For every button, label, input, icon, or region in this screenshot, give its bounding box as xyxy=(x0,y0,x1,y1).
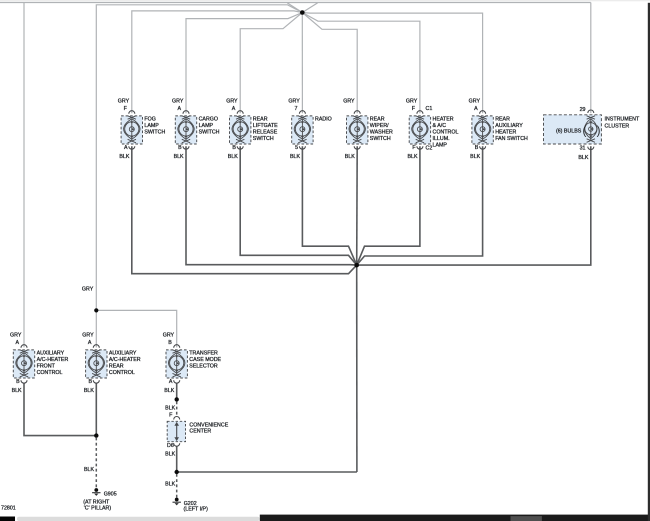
svg-text:B: B xyxy=(16,379,20,385)
svg-text:CONTROL: CONTROL xyxy=(37,370,63,376)
svg-text:CENTER: CENTER xyxy=(189,428,211,434)
svg-text:AUXILIARY: AUXILIARY xyxy=(109,350,137,356)
wire: GRY to heater & A/C control illumination xyxy=(302,13,420,114)
lamp component: rear wiper/washer switch xyxy=(347,111,368,149)
wire: BLK dashed to ground G202 xyxy=(176,474,178,498)
wire: GRY to rear wiper/washer switch xyxy=(302,13,357,114)
svg-text:CLUSTER: CLUSTER xyxy=(605,123,630,129)
svg-text:& A/C: & A/C xyxy=(433,123,447,129)
svg-text:BLK: BLK xyxy=(164,388,174,394)
scrollbar corner block xyxy=(0,517,15,521)
svg-text:WASHER: WASHER xyxy=(370,130,393,136)
wire: GRY to cargo lamp switch xyxy=(186,13,302,114)
wire: GRY branch to transfer case mode selector xyxy=(96,310,176,347)
svg-text:CARGO: CARGO xyxy=(199,116,218,122)
svg-text:A/C-HEATER: A/C-HEATER xyxy=(37,357,69,363)
svg-text:C2: C2 xyxy=(426,145,433,151)
svg-text:29: 29 xyxy=(580,107,586,113)
svg-text:(: ( xyxy=(583,126,587,138)
wire: GRY to rear auxiliary heater fan switch xyxy=(302,13,482,114)
wire: GRY to rear control / transfer case branch xyxy=(96,5,302,309)
wire: BLK dashed to convenience center pin F xyxy=(176,401,178,417)
svg-text:BLK: BLK xyxy=(290,154,300,160)
wire: BLK star run joins ground run xyxy=(177,471,357,473)
svg-text:BLK: BLK xyxy=(165,452,175,458)
wire: GRY main feed along top xyxy=(0,2,591,4)
ground G905 xyxy=(92,488,100,496)
svg-text:B: B xyxy=(475,145,479,151)
svg-text:SWITCH: SWITCH xyxy=(253,136,274,142)
svg-text:'C' PILLAR): 'C' PILLAR) xyxy=(84,506,112,512)
taskbar gray segment xyxy=(511,516,542,521)
lamp component: heater & A/C control illumination lamp xyxy=(409,111,430,149)
wire: BLK from fog lamp switch xyxy=(132,146,357,274)
wire: GRY to rear liftgate release switch xyxy=(240,13,302,114)
svg-text:SELECTOR: SELECTOR xyxy=(189,364,218,370)
wire: BLK from instrument cluster pin 31 xyxy=(357,146,591,265)
wire: BLK from front control to junction xyxy=(24,383,96,435)
wire: GRY to fog lamp switch xyxy=(132,11,302,113)
svg-text:HEATER: HEATER xyxy=(495,130,516,136)
wire: BLK from rear wiper/washer switch xyxy=(356,146,359,265)
wire: BLK from radio xyxy=(302,146,356,265)
svg-text:INSTRUMENT: INSTRUMENT xyxy=(605,116,640,122)
svg-text:SWITCH: SWITCH xyxy=(370,136,391,142)
svg-text:B: B xyxy=(88,379,92,385)
horizontal scrollbar thumb xyxy=(17,517,260,521)
svg-text:FRONT: FRONT xyxy=(37,364,56,370)
bottom dark taskbar strip xyxy=(260,515,650,521)
svg-text:GRY: GRY xyxy=(10,333,22,339)
svg-text:31: 31 xyxy=(580,146,586,152)
svg-text:BLK: BLK xyxy=(174,154,184,160)
svg-text:(6) BULBS: (6) BULBS xyxy=(556,128,582,134)
svg-text:B: B xyxy=(232,145,236,151)
svg-text:RADIO: RADIO xyxy=(315,116,332,122)
junction: BLK front/rear control xyxy=(94,433,98,437)
wire: splice diagonal up-right to top feed xyxy=(302,3,317,13)
svg-text:RELEASE: RELEASE xyxy=(253,130,278,136)
svg-text:A: A xyxy=(169,379,173,385)
svg-text:BLK: BLK xyxy=(165,405,175,411)
svg-text:LIFTGATE: LIFTGATE xyxy=(253,123,278,129)
lamp component: auxiliary A/C-heater rear control xyxy=(86,345,107,384)
wire: BLK from rear auxiliary heater fan switch xyxy=(357,146,483,265)
svg-text:GRY: GRY xyxy=(82,286,94,292)
svg-text:BLK: BLK xyxy=(12,388,22,394)
svg-text:FOG: FOG xyxy=(144,116,155,122)
wire: BLK star junction down to ground run xyxy=(356,265,358,472)
wire: BLK from rear liftgate release switch xyxy=(240,146,357,265)
svg-text:HEATER: HEATER xyxy=(433,116,454,122)
svg-text:BLK: BLK xyxy=(119,154,129,160)
junction: BLK ground junction at G202 run xyxy=(175,470,179,474)
svg-text:GRY: GRY xyxy=(226,99,238,105)
lamp component: fog lamp switch xyxy=(121,111,142,149)
wire: GRY drop to instrument cluster pin 29 xyxy=(590,3,592,114)
svg-text:FAN SWITCH: FAN SWITCH xyxy=(495,136,528,142)
svg-text:B: B xyxy=(178,145,182,151)
svg-text:): ) xyxy=(597,126,601,138)
svg-text:A: A xyxy=(16,340,20,346)
ground G202 xyxy=(173,498,181,506)
svg-text:A: A xyxy=(178,106,182,112)
wire: BLK from rear control to junction xyxy=(95,383,97,435)
svg-text:BLK: BLK xyxy=(84,467,94,473)
wire: GRY drop to auxiliary A/C-heater front control xyxy=(23,3,25,348)
svg-text:REAR: REAR xyxy=(370,116,385,122)
svg-text:5: 5 xyxy=(295,145,298,151)
lamp component: rear auxiliary heater fan switch xyxy=(472,111,493,149)
junction: transfer case BLK splice xyxy=(175,397,179,401)
svg-text:BLK: BLK xyxy=(578,155,588,161)
svg-text:REAR: REAR xyxy=(109,364,124,370)
splice: BLK ground star junction xyxy=(354,263,359,268)
svg-text:ILLUM.: ILLUM. xyxy=(433,136,450,142)
svg-text:LAMP: LAMP xyxy=(433,143,448,149)
lamp component: radio xyxy=(292,111,313,149)
svg-text:GRY: GRY xyxy=(406,99,418,105)
svg-text:GRY: GRY xyxy=(172,99,184,105)
instrument cluster with (6) bulbs xyxy=(544,110,602,150)
svg-text:SWITCH: SWITCH xyxy=(199,130,220,136)
wire: GRY continues to auxiliary A/C-heater rear control xyxy=(95,310,97,347)
svg-text:BLK: BLK xyxy=(165,482,175,488)
svg-text:CONTROL: CONTROL xyxy=(433,130,459,136)
wire: BLK from convenience center D6 down xyxy=(176,446,178,472)
svg-text:GRY: GRY xyxy=(469,99,481,105)
svg-text:SWITCH: SWITCH xyxy=(144,130,165,136)
wire: GRY to radio xyxy=(301,13,303,114)
svg-text:D6: D6 xyxy=(167,443,174,449)
svg-text:72801: 72801 xyxy=(1,505,16,511)
svg-text:7: 7 xyxy=(295,106,298,112)
svg-text:AUXILIARY: AUXILIARY xyxy=(37,350,65,356)
convenience center (fusible element) xyxy=(167,417,185,447)
svg-text:A/C-HEATER: A/C-HEATER xyxy=(109,357,141,363)
svg-text:REAR: REAR xyxy=(253,116,268,122)
svg-text:BLK: BLK xyxy=(228,154,238,160)
svg-text:BLK: BLK xyxy=(407,154,417,160)
svg-text:LAMP: LAMP xyxy=(144,123,159,129)
svg-text:AUXILIARY: AUXILIARY xyxy=(495,123,523,129)
wire: BLK dashed to ground G905 xyxy=(95,438,97,488)
right window edge xyxy=(648,3,650,521)
splice: GRY illumination feed star junction xyxy=(300,10,305,15)
svg-text:A: A xyxy=(124,145,128,151)
svg-text:TRANSFER: TRANSFER xyxy=(189,350,218,356)
svg-text:A: A xyxy=(232,106,236,112)
svg-text:GRY: GRY xyxy=(163,333,175,339)
svg-text:B: B xyxy=(168,340,172,346)
splice: GRY branch junction xyxy=(94,308,98,312)
svg-text:BLK: BLK xyxy=(84,388,94,394)
svg-text:REAR: REAR xyxy=(495,116,510,122)
svg-text:GRY: GRY xyxy=(82,333,94,339)
lamp component: transfer case mode selector xyxy=(166,345,187,384)
svg-text:CONTROL: CONTROL xyxy=(109,370,135,376)
svg-text:LAMP: LAMP xyxy=(199,123,214,129)
wire: BLK from cargo lamp switch xyxy=(186,146,357,265)
svg-text:BLK: BLK xyxy=(470,154,480,160)
svg-text:WIPER/: WIPER/ xyxy=(370,123,389,129)
svg-text:GRY: GRY xyxy=(343,99,355,105)
svg-text:GRY: GRY xyxy=(118,99,130,105)
svg-text:(LEFT I/P): (LEFT I/P) xyxy=(184,507,209,513)
svg-text:A: A xyxy=(474,106,478,112)
wire: BLK from heater & A/C control illumination xyxy=(357,146,420,265)
lamp component: cargo lamp switch xyxy=(175,111,196,149)
svg-text:C1: C1 xyxy=(426,106,433,112)
svg-text:GRY: GRY xyxy=(288,99,300,105)
svg-text:CASE MODE: CASE MODE xyxy=(189,357,221,363)
wire: BLK from transfer case selector xyxy=(176,383,178,399)
svg-text:G905: G905 xyxy=(104,491,117,497)
lamp component: rear liftgate release switch xyxy=(230,111,251,149)
window top edge band xyxy=(0,0,650,1)
wire: splice diagonal up-left to top feed xyxy=(287,3,302,13)
lamp component: auxiliary A/C-heater front control xyxy=(13,345,34,384)
svg-text:BLK: BLK xyxy=(345,154,355,160)
svg-text:A: A xyxy=(88,340,92,346)
